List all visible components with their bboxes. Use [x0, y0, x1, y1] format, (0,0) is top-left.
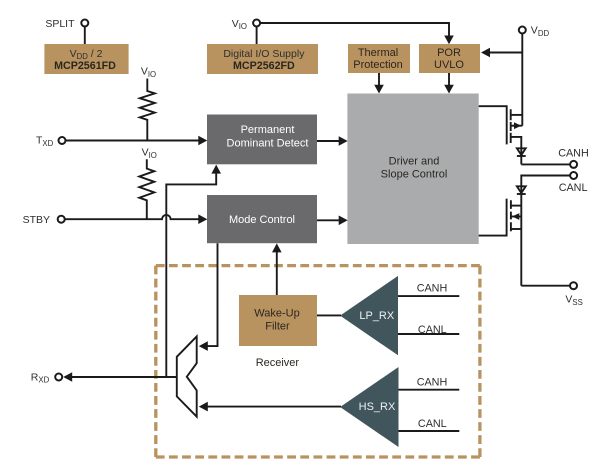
arrowhead into Mode Control bottom — [272, 243, 282, 252]
wire LP_RX CANL stub — [398, 324, 459, 336]
transistor Q2 drain stub — [511, 205, 521, 207]
diode D2 — [517, 186, 526, 194]
wire POR UVLO to Driver — [448, 73, 450, 86]
wire HS_RX CANH stub — [399, 377, 460, 390]
transistor Q1 body arrow — [511, 125, 523, 127]
terminal TXD — [36, 135, 66, 148]
svg-text:CANL: CANL — [559, 182, 588, 194]
terminal STBY — [23, 214, 65, 226]
svg-text:Digital I/O Supply: Digital I/O Supply — [223, 48, 305, 60]
wire TXD to Permanent Dominant Detect — [66, 140, 200, 142]
wire HS_RX to mux — [206, 406, 341, 408]
terminal VIO top — [232, 18, 260, 31]
svg-text:MCP2562FD: MCP2562FD — [233, 60, 295, 72]
terminal CANH — [558, 148, 589, 168]
wire Q1 to CANH — [521, 163, 570, 165]
wire LP_RX CANH stub — [398, 282, 459, 296]
terminal RXD — [31, 371, 62, 384]
resistor R1 pullup VIO — [140, 66, 156, 141]
transistor Q2 body arrow — [511, 216, 521, 218]
box POR UVLO — [419, 44, 480, 73]
arrowhead into Driver left upper — [339, 136, 348, 146]
wire STBY to Mode Control with hop — [65, 215, 200, 219]
svg-text:Driver and: Driver and — [389, 155, 440, 167]
svg-text:Protection: Protection — [353, 59, 403, 71]
wire CANL to Q2 — [521, 176, 570, 286]
comparator HS_RX — [340, 367, 398, 447]
svg-text:UVLO: UVLO — [434, 59, 464, 71]
svg-text:CANH: CANH — [417, 377, 448, 389]
svg-text:VIO: VIO — [142, 147, 157, 160]
arrowhead into PDD left — [198, 136, 207, 146]
diode D1 — [517, 148, 526, 156]
box Wake-Up Filter — [239, 295, 317, 346]
svg-text:Filter: Filter — [265, 321, 290, 333]
wire Q2 source to VSS — [521, 285, 570, 287]
arrowhead into mux bottom input — [199, 402, 208, 412]
arrowhead into RXD terminal — [63, 372, 72, 382]
svg-text:Permanent: Permanent — [241, 124, 295, 136]
svg-text:Mode Control: Mode Control — [229, 214, 295, 226]
transistor Q2 source stub — [511, 228, 521, 230]
dashed receiver enclosure — [156, 266, 480, 457]
svg-text:STBY: STBY — [23, 214, 50, 226]
transistor Q1 channel — [510, 109, 512, 143]
wire PDD to Driver — [317, 140, 341, 142]
wire mux to RXD — [71, 376, 177, 378]
wire Thermal Protection to Driver — [378, 73, 380, 86]
svg-text:Thermal: Thermal — [358, 47, 398, 59]
wire Mode Control to Driver — [317, 219, 341, 221]
wire VDD to POR UVLO right — [488, 52, 522, 54]
svg-text:RXD: RXD — [31, 371, 50, 384]
arrowhead into POR top — [444, 36, 454, 45]
mux selector — [177, 336, 197, 416]
svg-text:LP_RX: LP_RX — [359, 310, 395, 322]
wire VIO to MCP2562FD box — [256, 27, 258, 44]
svg-text:VSS: VSS — [565, 294, 582, 307]
svg-text:Wake-Up: Wake-Up — [254, 307, 299, 319]
wire gate of Q1 from Driver — [479, 106, 507, 144]
resistor R2 pullup VIO — [139, 147, 157, 220]
transistor Q1 source stub — [511, 137, 522, 165]
svg-text:CANH: CANH — [558, 148, 589, 160]
arrowhead into Driver top from POR — [444, 85, 454, 94]
arrowhead into Mode Control left — [198, 214, 207, 224]
box U2 Digital I/O Supply MCP2562FD — [207, 44, 318, 74]
arrowhead into PDD bottom — [211, 165, 221, 174]
wire Wake-Up Filter to LP_RX — [317, 314, 341, 316]
box Driver and Slope Control — [347, 94, 478, 245]
box Thermal Protection — [348, 44, 410, 73]
wire VIO to POR UVLO top — [260, 23, 449, 37]
svg-text:CANH: CANH — [417, 282, 448, 294]
arrowhead into Driver left lower — [339, 216, 348, 226]
box Permanent Dominant Detect — [207, 115, 317, 165]
svg-text:TXD: TXD — [36, 135, 54, 148]
arrowhead into Driver top from Thermal — [374, 85, 384, 94]
svg-text:HS_RX: HS_RX — [359, 401, 396, 413]
svg-text:VIO: VIO — [232, 18, 247, 31]
arrowhead into POR right — [481, 48, 490, 58]
transistor Q1 drain stub — [511, 114, 523, 116]
svg-text:CANL: CANL — [418, 324, 447, 336]
wire VDD rail down — [521, 34, 523, 126]
wire HS_RX CANL stub — [399, 418, 460, 431]
svg-text:MCP2561FD: MCP2561FD — [54, 60, 116, 72]
terminal SPLIT — [45, 18, 88, 30]
svg-text:Receiver: Receiver — [256, 357, 300, 369]
svg-text:CANL: CANL — [418, 418, 447, 430]
terminal VDD — [519, 25, 550, 38]
wire Wake-Up Filter to Mode Control — [276, 252, 278, 296]
terminal CANL — [559, 172, 588, 194]
svg-text:VDD: VDD — [531, 25, 550, 38]
terminal VSS — [565, 282, 582, 307]
wire RXD feedback to PDD bottom — [166, 173, 216, 377]
svg-text:Dominant Detect: Dominant Detect — [227, 137, 309, 149]
wire SPLIT to MCP2561FD box — [84, 27, 86, 44]
svg-text:Slope Control: Slope Control — [381, 169, 448, 181]
wire gate of Q2 from Driver — [479, 199, 507, 236]
wire Mode Control to mux select — [206, 243, 218, 346]
box Mode Control — [207, 195, 317, 243]
svg-text:VIO: VIO — [141, 66, 156, 79]
transistor Q2 channel — [510, 200, 512, 231]
comparator LP_RX — [340, 276, 398, 355]
box U1 VDD/2 MCP2561FD — [44, 44, 128, 74]
arrowhead into mux top input — [199, 341, 208, 351]
svg-text:SPLIT: SPLIT — [45, 18, 75, 30]
svg-text:POR: POR — [437, 47, 461, 59]
